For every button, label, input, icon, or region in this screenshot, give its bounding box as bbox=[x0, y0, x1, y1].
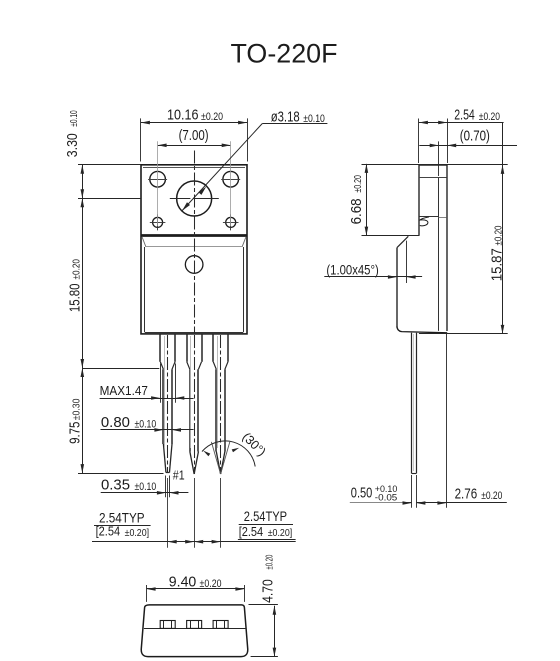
svg-text:(30°): (30°) bbox=[239, 430, 268, 459]
svg-text:#1: #1 bbox=[173, 468, 185, 482]
svg-text:15.87: 15.87 bbox=[488, 248, 505, 281]
svg-text:TO-220F: TO-220F bbox=[231, 39, 338, 69]
svg-text:±0.20: ±0.20 bbox=[479, 111, 500, 123]
svg-text:0.50: 0.50 bbox=[351, 485, 373, 502]
svg-text:±0.20: ±0.20 bbox=[492, 225, 504, 245]
svg-text:±0.20: ±0.20 bbox=[201, 111, 223, 123]
svg-text:±0.20: ±0.20 bbox=[264, 555, 276, 570]
svg-text:±0.10: ±0.10 bbox=[303, 113, 325, 125]
svg-text:(0.70): (0.70) bbox=[460, 128, 490, 145]
svg-text:2.54: 2.54 bbox=[454, 107, 475, 124]
svg-text:0.35: 0.35 bbox=[101, 477, 130, 494]
svg-text:(1.00x45°): (1.00x45°) bbox=[326, 262, 378, 278]
svg-text:3.30: 3.30 bbox=[64, 133, 81, 157]
svg-text:6.68: 6.68 bbox=[348, 198, 365, 224]
svg-text:(7.00): (7.00) bbox=[179, 127, 209, 144]
svg-text:±0.30: ±0.30 bbox=[71, 398, 83, 420]
svg-text:±0.20]: ±0.20] bbox=[125, 527, 150, 539]
svg-text:0.80: 0.80 bbox=[101, 414, 130, 431]
svg-text:±0.10: ±0.10 bbox=[135, 418, 157, 430]
svg-text:10.16: 10.16 bbox=[167, 106, 199, 123]
svg-text:[2.54: [2.54 bbox=[96, 524, 121, 539]
svg-text:[2.54: [2.54 bbox=[239, 524, 264, 539]
svg-text:MAX1.47: MAX1.47 bbox=[100, 383, 148, 398]
svg-text:±0.20: ±0.20 bbox=[352, 175, 364, 193]
svg-text:±0.10: ±0.10 bbox=[135, 481, 157, 493]
svg-text:±0.20: ±0.20 bbox=[481, 490, 502, 502]
svg-text:2.54TYP: 2.54TYP bbox=[244, 508, 287, 524]
svg-text:±0.10: ±0.10 bbox=[68, 110, 80, 127]
svg-text:-0.05: -0.05 bbox=[375, 493, 398, 503]
svg-text:2.76: 2.76 bbox=[455, 486, 478, 503]
svg-text:9.75: 9.75 bbox=[67, 422, 84, 444]
svg-text:4.70: 4.70 bbox=[260, 579, 277, 603]
svg-text:ø3.18: ø3.18 bbox=[271, 109, 300, 126]
svg-text:±0.20: ±0.20 bbox=[70, 259, 82, 280]
svg-text:±0.20]: ±0.20] bbox=[268, 527, 293, 539]
svg-text:15.80: 15.80 bbox=[66, 284, 83, 313]
